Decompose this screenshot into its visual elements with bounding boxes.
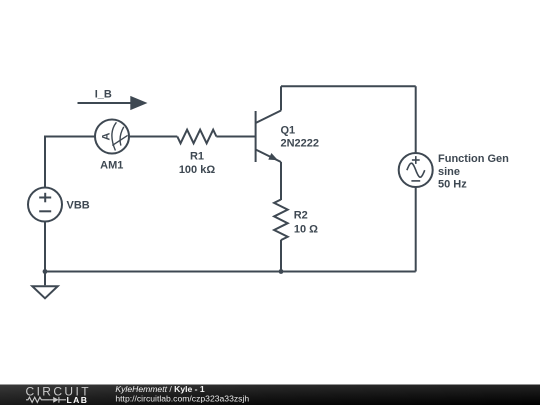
svg-text:R1: R1 (190, 150, 204, 162)
ammeter AM1 (95, 120, 129, 154)
svg-text:KyleHemmett / Kyle - 1: KyleHemmett / Kyle - 1 (115, 384, 205, 394)
svg-text:sine: sine (438, 166, 460, 178)
svg-text:Function Gen: Function Gen (438, 153, 509, 165)
current arrow I_B (78, 96, 148, 110)
wire R1 to Q1 base (216, 136, 255, 138)
logo squiggle and diode (26, 397, 66, 403)
resistor R1 (177, 130, 216, 144)
svg-text:A: A (100, 132, 112, 140)
wire left vertical VBB-top to corner and to ammeter (45, 137, 95, 188)
svg-text:AM1: AM1 (100, 159, 123, 171)
wire right vertical to function gen (415, 86, 417, 153)
wire function gen to bottom (415, 187, 417, 272)
junction node bottom-left (43, 269, 48, 274)
junction node R2/bottom (279, 269, 284, 274)
wire bottom horizontal (45, 271, 416, 273)
svg-text:50 Hz: 50 Hz (438, 179, 467, 191)
transistor Q1 (256, 111, 281, 163)
svg-text:2N2222: 2N2222 (281, 137, 320, 149)
svg-text:VBB: VBB (67, 200, 90, 212)
function generator V1 (399, 153, 433, 187)
resistor R2 (274, 200, 288, 241)
svg-text:10 Ω: 10 Ω (294, 223, 318, 235)
wire emitter to R2 (280, 162, 282, 200)
ground (32, 286, 57, 298)
svg-text:Q1: Q1 (281, 125, 296, 137)
voltage source VBB (28, 188, 62, 222)
wire VBB bottom to junction (44, 222, 46, 272)
svg-text:LAB: LAB (67, 395, 89, 405)
svg-text:http://circuitlab.com/czp323a3: http://circuitlab.com/czp323a33zsjh (115, 394, 249, 404)
svg-text:100 kΩ: 100 kΩ (179, 164, 216, 176)
wire top horizontal (281, 85, 416, 87)
svg-text:I_B: I_B (95, 89, 112, 101)
wire collector to top (280, 86, 282, 110)
wire ammeter to R1 (129, 136, 177, 138)
svg-text:R2: R2 (294, 209, 308, 221)
wire ground stub (44, 272, 46, 286)
wire R2 to bottom junction (280, 240, 282, 272)
